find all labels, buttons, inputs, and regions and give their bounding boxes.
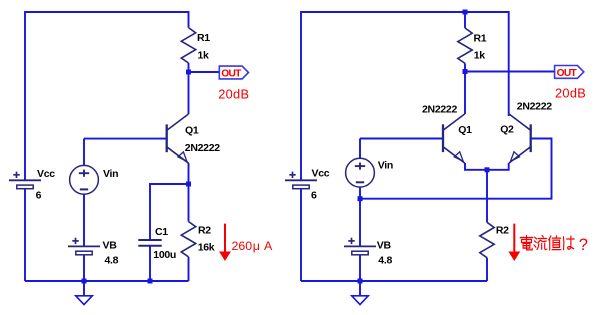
resistor R2 right [480,222,509,257]
transistor Q2 right [500,100,552,163]
svg-text:100u: 100u [153,249,176,261]
battery VB left [68,238,119,267]
svg-text:20dB: 20dB [555,85,586,100]
svg-text:2N2222: 2N2222 [422,104,457,116]
svg-text:2N2222: 2N2222 [185,142,220,154]
svg-text:VB: VB [377,239,392,251]
svg-text:20dB: 20dB [218,86,249,101]
wire Vin bottom right [359,187,361,199]
source Vin left [70,165,119,194]
wire R2 bottom left [188,257,190,281]
junction VB rail right [358,279,363,284]
wire emitters common [465,163,509,170]
wire base Q2 path [360,139,552,199]
svg-text:4.8: 4.8 [378,254,392,266]
wire collector Q1 left [188,72,190,114]
wire base Q1 right [360,138,443,140]
svg-text:Vcc: Vcc [37,168,55,180]
wire bottom rail left [25,280,189,282]
svg-text:OUT: OUT [557,68,578,79]
svg-text:16k: 16k [198,241,215,253]
wire Vin top lead right [359,139,361,159]
wire C1 bottom [149,246,151,281]
svg-text:260μA: 260μA [232,239,274,253]
transistor Q1 [167,114,221,163]
svg-text:2N2222: 2N2222 [517,100,552,112]
svg-text:Vin: Vin [103,168,118,180]
junction top rail R1 right [463,10,468,15]
wire Vin top lead [83,139,85,166]
wire emitter node to R2 [188,184,190,222]
wire R2 bottom right [486,258,488,281]
svg-text:Q1: Q1 [458,124,472,136]
capacitor C1 [138,226,176,261]
node OUT junction [186,70,191,75]
junction Vin node right [358,196,363,201]
svg-text:R2: R2 [496,224,509,236]
text 20dB left [218,86,249,101]
text 20dB right [555,85,586,100]
svg-text:1k: 1k [474,50,486,62]
svg-text:Q2: Q2 [500,123,514,135]
svg-text:6: 6 [311,190,317,202]
resistor R1 right [458,12,487,72]
svg-text:R1: R1 [474,32,487,44]
resistor R1 [181,28,210,72]
current arrow right [508,224,520,261]
svg-text:1k: 1k [198,49,210,61]
text 260uA [232,239,274,253]
svg-text:R2: R2 [198,224,211,236]
ground right [352,281,369,305]
current arrow left [219,224,231,261]
svg-text:VB: VB [103,239,118,251]
svg-text:C1: C1 [155,226,168,238]
wire top rail right [301,12,509,281]
source Vin right [346,158,393,187]
svg-text:Vin: Vin [378,160,393,172]
wire VB to rail right [359,255,361,281]
svg-text:?: ? [579,236,588,254]
svg-text:Q1: Q1 [185,124,199,136]
junction emitters [485,167,490,172]
junction C1 rail [148,279,153,284]
text current question (kanji) [520,236,588,254]
wire emitter node to R2 right [486,170,488,223]
port flag OUT right [555,66,584,80]
junction VB rail [82,279,87,284]
wire top rail left [25,12,189,281]
resistor R2 left [181,222,214,257]
wire base Q1 left [84,138,167,140]
wire emitter Q1 left [188,163,190,184]
svg-text:6: 6 [36,190,42,202]
battery Vcc [9,168,55,202]
wire VB to rail [83,255,85,281]
wire Vin node to VB right [359,199,361,247]
battery Vcc right [285,167,330,201]
svg-text:OUT: OUT [221,69,242,80]
junction emitter node [186,182,191,187]
port flag OUT [219,66,248,80]
transistor Q1 right [422,104,472,163]
junction OUT right [463,69,468,74]
svg-text:4.8: 4.8 [105,254,119,266]
wire emitter node to C1 [150,184,189,240]
wire to OUT port right [465,71,555,73]
ground left [76,281,93,305]
svg-text:R1: R1 [197,32,210,44]
wire Vin to VB [83,194,85,246]
wire collector Q1 right [464,72,466,115]
svg-text:Vcc: Vcc [312,167,330,179]
wire to OUT port [189,71,220,73]
wire bottom rail right [301,280,487,282]
battery VB right [344,238,392,267]
